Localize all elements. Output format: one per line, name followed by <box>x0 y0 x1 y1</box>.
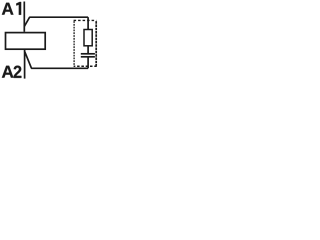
wire A1 diagonal <box>24 17 29 26</box>
wire A2 diagonal <box>25 51 32 68</box>
background <box>0 0 106 89</box>
wire bottom horizontal <box>31 67 88 69</box>
suppressor module dashed box top edge <box>74 19 97 21</box>
wire A2 vertical <box>24 50 26 79</box>
wire drop to resistor <box>87 17 89 29</box>
capacitor C top plate <box>81 53 95 55</box>
label A1 <box>2 2 21 15</box>
wire resistor to capacitor <box>87 46 89 54</box>
coil K1 <box>6 33 46 50</box>
wire A1 vertical <box>23 2 25 32</box>
resistor R <box>84 30 92 46</box>
suppressor module dashed box right edge <box>95 21 97 66</box>
label A2 <box>2 66 22 78</box>
capacitor C bottom plate <box>81 56 95 58</box>
wire A1 horizontal <box>29 16 88 18</box>
suppressor module dashed box left edge <box>73 21 75 66</box>
wire capacitor to bottom <box>87 57 89 69</box>
suppressor module dashed box bottom edge <box>74 65 97 67</box>
